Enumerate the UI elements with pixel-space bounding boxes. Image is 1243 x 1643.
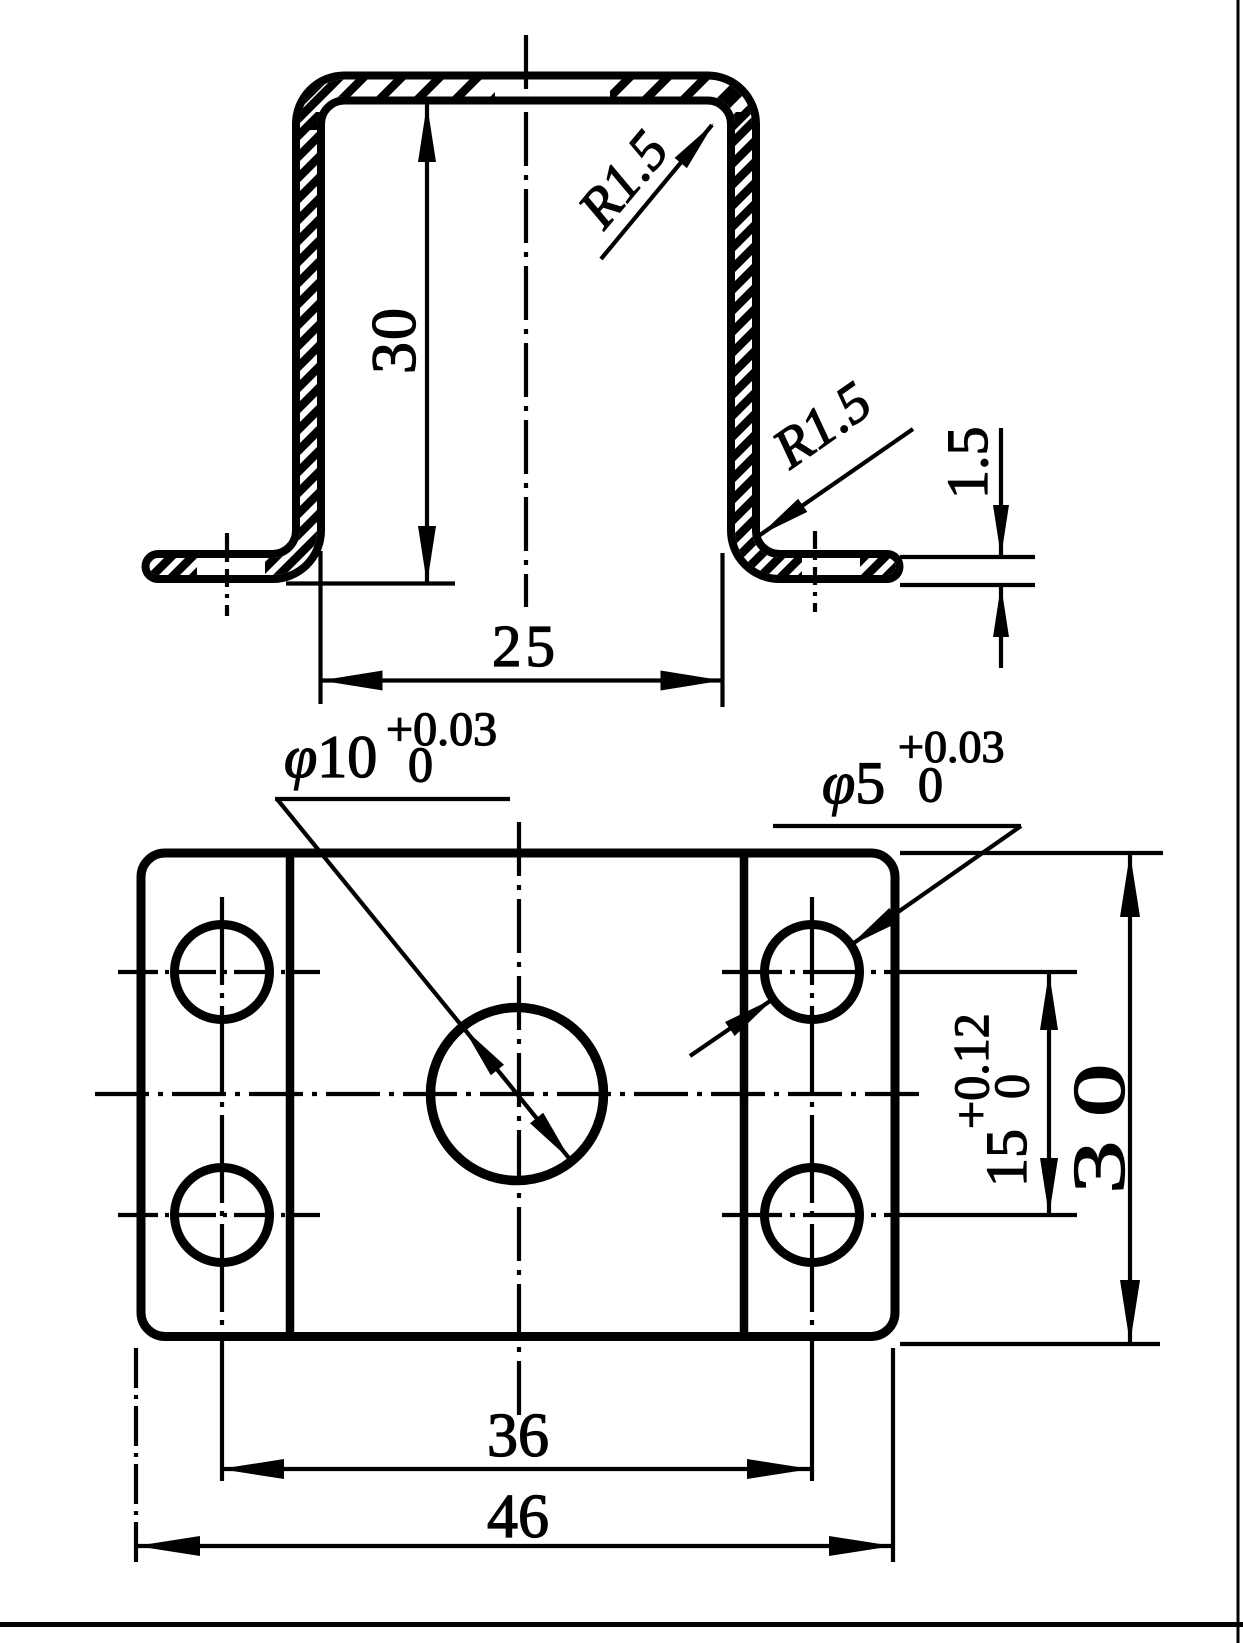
- dim 30 bottom extension line: [900, 1342, 1160, 1346]
- dim 25 dimension line: [321, 678, 723, 682]
- phi10 label underline: [275, 797, 510, 801]
- dim 25 arrowheads: [321, 671, 383, 691]
- svg-text:+0.03: +0.03: [386, 703, 497, 756]
- dim 46 right extension line: [891, 1348, 895, 1562]
- center hole phi10: [431, 1008, 604, 1181]
- dim 15 arrowheads: [1040, 972, 1058, 1030]
- svg-text:+0.12: +0.12: [943, 1013, 999, 1129]
- hole bottom-right: [765, 1168, 860, 1263]
- dim 30 (plate) arrowheads: [1120, 853, 1140, 917]
- R1.5 top leader line: [601, 125, 712, 259]
- phi5 leader line upper: [850, 826, 1021, 946]
- dim 46 left extension line: [134, 1348, 138, 1562]
- R1.5 bottom leader line: [760, 429, 913, 535]
- svg-text:36: 36: [487, 1402, 549, 1470]
- phi10 leader line: [277, 799, 464, 1028]
- R1.5 top leader arrowhead: [675, 123, 714, 168]
- phi10 diameter line inside hole: [464, 1028, 571, 1160]
- hole top-right: [765, 925, 860, 1020]
- dim 36 dimension line: [220, 1467, 811, 1471]
- dim 1.5 top extension line: [900, 555, 1035, 559]
- dim 15 dimension line: [1047, 972, 1051, 1216]
- hat-section band outer outline: [158, 88, 887, 567]
- svg-text:0: 0: [408, 736, 433, 792]
- svg-text:0: 0: [918, 756, 943, 812]
- top hole row center line left: [118, 970, 320, 974]
- svg-text:30: 30: [1058, 1040, 1140, 1194]
- hat-section band inner white: [158, 88, 887, 567]
- phi5 arrowheads: [850, 908, 899, 946]
- plate outline (top view): [141, 853, 895, 1337]
- right hole column center line: [810, 897, 814, 1336]
- dim 30 top extension line: [900, 851, 1163, 855]
- hole bottom-left: [175, 1168, 270, 1263]
- phi5 leader line lower: [690, 998, 774, 1056]
- bottom hole row center line left: [118, 1213, 320, 1217]
- svg-text:0: 0: [983, 1074, 1039, 1099]
- svg-text:+0.03: +0.03: [898, 721, 1004, 772]
- svg-text:46: 46: [487, 1483, 549, 1551]
- plate horizontal center line: [95, 1092, 928, 1096]
- section hatching (walls and feet): [130, 40, 920, 640]
- svg-text:15: 15: [974, 1129, 1039, 1187]
- left hole column center line: [220, 897, 224, 1336]
- svg-text:1.5: 1.5: [935, 427, 1000, 500]
- page frame right border: [1237, 0, 1240, 1643]
- dim 30 (section) arrowheads: [418, 104, 436, 162]
- section hatching (top web): [230, 55, 804, 135]
- svg-text:25: 25: [492, 613, 559, 679]
- left bend fold line: [286, 853, 295, 1337]
- dim 25 right extension line: [720, 553, 724, 707]
- phi5 label underline: [773, 824, 1021, 828]
- dim text 15 +0.12 0 (rotated): [943, 1013, 1039, 1187]
- svg-text:30: 30: [358, 306, 429, 374]
- svg-text:φ5: φ5: [822, 750, 885, 816]
- page frame bottom border: [0, 1622, 1243, 1627]
- left foot hole center line: [225, 533, 229, 616]
- dim 46 dimension line: [136, 1544, 893, 1548]
- right foot hole center line: [813, 531, 817, 612]
- dim 46 arrowheads: [136, 1536, 200, 1556]
- right bend fold line: [740, 853, 749, 1337]
- dim 30 (plate) dimension line: [1128, 853, 1132, 1344]
- foot bottom extension line: [286, 581, 455, 585]
- dim 25 left extension line: [318, 551, 322, 704]
- section vertical center line: [524, 35, 528, 607]
- hole top-left: [175, 925, 270, 1020]
- dim 36 arrowheads: [220, 1459, 284, 1479]
- dim 30 (section) dimension line: [425, 104, 429, 584]
- phi10 diameter arrowheads: [464, 1028, 505, 1075]
- bottom hole row center line right / dim 15 extension: [722, 1213, 910, 1217]
- dim 1.5 arrow tails: [999, 428, 1003, 557]
- dim 1.5 arrowheads: [993, 505, 1009, 557]
- top hole row center line right / dim 15 extension: [722, 970, 910, 974]
- R1.5 bottom leader arrowhead: [760, 499, 807, 535]
- dim 1.5 bottom extension line: [900, 583, 1035, 587]
- svg-text:φ10: φ10: [284, 724, 377, 790]
- plate vertical center line: [517, 822, 521, 1420]
